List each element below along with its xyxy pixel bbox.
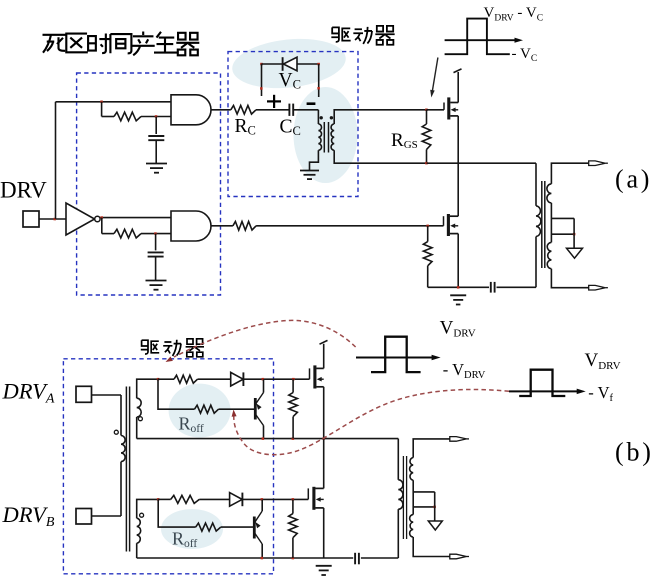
AND gate U3 (bottom) [171,211,211,241]
wire Q2 source down [457,234,459,288]
node junction at DRV input [54,218,57,221]
node junction rail B resistor [292,557,295,560]
label dead-time generator title 死区时间产生器 [43,32,200,56]
resistor RC [231,106,256,115]
wire T4 center tap down [434,492,436,521]
transformer T4 secondary middle [412,480,414,514]
label -VDRV (b1) [443,360,486,381]
ground triangle (a) [567,248,583,258]
label DRV [0,178,47,203]
transistor Q5 (PNP, A) [255,393,263,426]
svg-text:- VC: - VC [512,46,538,64]
transformer T4 secondary bottom winding [410,515,414,537]
label RC [235,116,256,137]
node junction gate Q2 [426,225,429,228]
node junction emitter B [261,498,264,501]
wire DRV square to inverter [39,218,66,220]
wire DRVA to transformer T3 [92,394,122,396]
wire capacitor C1 to ground [155,140,157,163]
node junction center tap [573,233,576,236]
transformer T3 secondary B top lead [137,499,159,518]
node junction gate Q1 / RGS [425,109,428,112]
capacitor C2 (bottom channel delay) [148,252,164,256]
node junction rail A source [322,437,325,440]
node junction rail A collector [262,437,265,440]
capacitor CC [289,104,293,116]
label -VC [512,46,538,64]
resistor R4 (Q2 gate-source) [423,226,432,287]
wire RC to capacitor CC [256,109,289,111]
svg-text:RGS: RGS [391,130,418,151]
label Roff A [179,414,204,436]
highlight ellipse around Roff A (b) [169,384,231,438]
label VC [279,70,301,91]
wire AND U1 output to resistor RC [211,109,231,111]
node junction secondary B top [157,498,160,501]
wire top branch B [158,498,171,500]
resistor R1 (RC delay, top channel) [114,112,141,121]
wire Roff B to transistor Q6 base [221,526,254,528]
transformer T1 secondary top lead [334,110,426,124]
transformer T3 core [126,387,129,552]
node junction gate Q3 [292,378,295,381]
transformer T2 secondary middle [550,203,552,243]
annotation arrow to Q1 gate [430,58,438,98]
svg-text:- Vf: - Vf [588,383,613,404]
node junction diode left bottom [260,87,263,90]
transistor Q6 (PNP, B) [254,511,262,544]
label Roff B [172,529,197,551]
node junction diode right bottom [317,87,320,90]
label DRVA [2,379,55,407]
wire AND U3 output to resistor R3 [211,225,233,227]
svg-text:VDRV: VDRV [440,318,476,340]
svg-text:RC: RC [235,116,256,137]
wire diode cathode [262,63,283,65]
node junction top branch [100,101,103,104]
label VDRV (b1) [440,318,476,340]
ground below T1 primary [300,171,319,180]
node junction inverter output [101,216,104,219]
transformer T3 secondary A bottom lead [136,417,138,439]
transformer T1 primary lead [317,110,319,124]
driver dashed box (b) [63,359,273,574]
label CC [280,117,301,138]
input terminal square DRV [23,211,39,227]
transformer T1 primary winding [318,124,321,150]
label minus sign [307,102,316,105]
transformer T1 phase dot primary [320,116,323,119]
transformer T1 secondary winding [331,124,334,150]
transformer T3 secondary A winding [137,398,141,417]
label RGS [391,130,418,151]
ground below C1 [146,164,167,173]
resistor Roff A [195,405,219,413]
wire Q6 collector down [261,544,263,558]
MOSFET Q4 (b lower) [308,487,323,510]
ground below C2 [146,281,167,290]
wire Q4 source down [323,508,325,558]
wire diode anode [297,63,319,65]
label VDRV-VC [484,5,544,24]
wire gate to MOSFET Q1 [427,109,445,111]
label VDRV (b2) [585,350,621,372]
transformer T4 secondary top winding [410,458,414,481]
wire diode branch left vertical [261,64,263,96]
capacitor C3 (DC block, a) [491,282,495,293]
transformer T3 phase dot secondary A [138,417,142,421]
waveform pulse (a) [445,19,510,55]
transformer T2 secondary bottom winding [547,242,551,268]
wire D3 to gate Q4 [242,498,308,500]
wire R7 to diode D3 [199,498,229,500]
diode D1 clamp (VC) [283,57,297,71]
output arrow top (b) [450,437,469,442]
label -Vf (b2) [588,383,613,404]
waveform pulse (b1) [371,337,421,372]
node junction diode right top [317,63,320,66]
wire rail B left [137,557,354,559]
wire Q5 emitter up [263,379,265,392]
transformer T1 primary bottom lead [310,150,319,170]
transformer T4 primary winding [398,480,403,509]
diode D2 (A) [231,372,244,386]
svg-text:VDRV - VC: VDRV - VC [484,5,544,24]
resistor R2 (RC delay, bottom channel) [114,229,141,238]
wire Q1 source to Q2 drain [457,116,459,216]
wire Q5 collector down [263,426,265,439]
transformer T4 secondary top lead [413,439,450,458]
highlight ellipse around coupling transformer (a) [294,87,358,183]
svg-text:DRV: DRV [0,178,47,203]
supply tick (b) [320,340,328,344]
inverter U2 [66,203,100,235]
wire center tap down [573,218,575,248]
ground below Q4 source [316,566,332,575]
svg-text:(a): (a) [615,165,652,194]
svg-text:(b): (b) [615,438,654,467]
wire resistor R1 to AND gate U1 [141,116,171,118]
transformer T1 secondary bottom lead [334,150,426,163]
wire bottom rail (a) [428,286,489,288]
transformer T2 secondary bottom lead [551,269,588,288]
MOSFET Q3 (b upper) [310,365,324,388]
transformer T2 core [542,181,545,268]
wire resistor R2 to AND gate U3 [141,233,171,235]
wire top branch to AND gate U1 [56,101,172,103]
diode D3 (B) [230,493,243,507]
transformer T3 phase dot primary [114,430,118,434]
wire D2 to gate Q3 [243,378,309,380]
red dashed annotation curve 2 [232,389,509,454]
resistor RGS [422,110,431,163]
input terminal square DRVB [76,509,92,525]
ground below bottom rail (a) [450,295,466,304]
wire Roff B branch [158,499,196,527]
transformer T3 secondary B winding [137,518,141,543]
driver dashed box (a) [228,52,358,197]
node junction emitter A [262,378,265,381]
capacitor C1 (top channel delay) [148,136,164,140]
transformer T1 phase dot secondary [330,116,333,119]
wire diode branch right vertical [318,64,320,97]
wire Q1 drain to supply [457,72,459,103]
label (a) [615,165,652,194]
wire Q3 drain rail up [323,344,325,369]
wire T4 center tap upper [413,491,435,493]
supply tick above Q1 [454,69,462,73]
node junction rail A resistor [292,437,295,440]
wire Q3 source down to rail / Q4 drain [323,387,325,489]
wire C3 to output transformer T2 [497,286,537,288]
wire top branch A [158,378,174,380]
MOSFET Q2 (lower) [444,214,459,236]
output arrow bottom (b) [450,554,469,559]
transformer T3 primary top lead [120,395,122,436]
output arrow top (a) [589,161,608,166]
node junction gate Q4 [292,498,295,501]
wire Roff A branch [158,379,195,409]
node junction T4 center tap [433,506,436,509]
wire vertical DRV to top branch [55,102,57,219]
node junction rail B collector [261,557,264,560]
node junction mid rail [425,162,428,165]
transformer T3 primary bottom lead [120,462,122,516]
highlight ellipse around diode clamp (a) [230,34,348,94]
svg-text:VDRV: VDRV [585,350,621,372]
transformer T2 secondary top lead [551,163,588,184]
node junction diode left top [260,63,263,66]
resistor R7 (gate on, B) [171,495,200,503]
transformer T2 primary winding [536,206,541,237]
wire R5 to diode D2 [198,378,231,380]
transformer T4 secondary bottom lead [413,537,450,557]
transformer T2 primary lead bottom [535,237,537,288]
node junction R1-C1 [155,115,158,118]
transformer T4 primary lead top [397,439,399,480]
red dashed annotation curve 1 [166,320,356,362]
wire center tap lower [551,233,574,235]
resistor R8 (Q4 gate-source) [289,499,298,558]
transformer T2 primary lead top [535,163,537,206]
wire CC to transformer T1 primary [293,109,318,111]
input terminal square DRVA [76,386,92,402]
wire R3 to MOSFET Q2 gate [256,225,443,227]
AND gate U1 (top) [171,95,211,125]
output arrow bottom (a) [589,285,608,290]
wire Q6 emitter up [261,499,263,511]
wire junction to capacitor C1 [155,117,157,135]
node junction secondary A top [157,378,160,381]
svg-text:DRVB: DRVB [2,502,55,530]
wire mid rail to output transformer [427,162,537,164]
wire rail A [137,438,399,440]
transformer T3 primary winding [121,436,125,462]
MOSFET Q1 (upper) [444,97,458,119]
label plus sign [267,95,281,108]
label DRVB [2,502,55,530]
label driver title 驱动器 (b) [141,339,204,357]
transformer T4 core [403,456,406,539]
node junction R2-C2 [154,232,157,235]
wire capacitor C2 to ground [155,257,157,281]
capacitor C4 (DC block, b) [355,553,359,565]
wire junction down to resistor R2 [102,218,114,234]
waveform axis (b1) [356,355,441,360]
node junction bottom rail [457,286,460,289]
label driver title 驱动器 (a) [331,26,394,45]
svg-text:- VDRV: - VDRV [443,360,486,381]
label (b) [615,438,654,467]
waveform axis (b2) [509,389,586,395]
wire inverter output to AND gate U3 [100,217,171,219]
wire DRVB to transformer T3 [92,515,122,517]
wire T4 center tap lower [413,506,435,508]
wire junction to capacitor C2 [155,234,157,251]
transformer T3 secondary A top lead [137,379,158,398]
dead-time generator dashed box [77,73,221,295]
wire C4 to transformer T4 [361,557,398,559]
highlight ellipse around Roff B (b) [161,509,223,549]
wire Roff A to transistor Q5 base [219,408,255,410]
transformer T3 secondary B bottom lead [136,543,138,558]
ground triangle (b) [428,521,442,530]
transformer T2 secondary top winding [547,184,552,203]
waveform pulse (b2) [519,370,565,396]
wire junction down to resistor R1 [102,102,114,117]
transformer T3 phase dot secondary B [140,513,144,517]
waveform axis (a) [445,38,523,43]
svg-text:DRVA: DRVA [2,379,55,407]
wire center tap upper [551,217,574,219]
resistor Roff B [196,523,221,531]
transformer T1 core [324,122,328,153]
transformer T4 primary lead bottom [397,509,399,558]
resistor R5 (gate on, A) [174,375,198,383]
resistor R6 (Q3 gate-source) [289,379,298,438]
resistor R3 (lower gate series) [233,222,256,231]
